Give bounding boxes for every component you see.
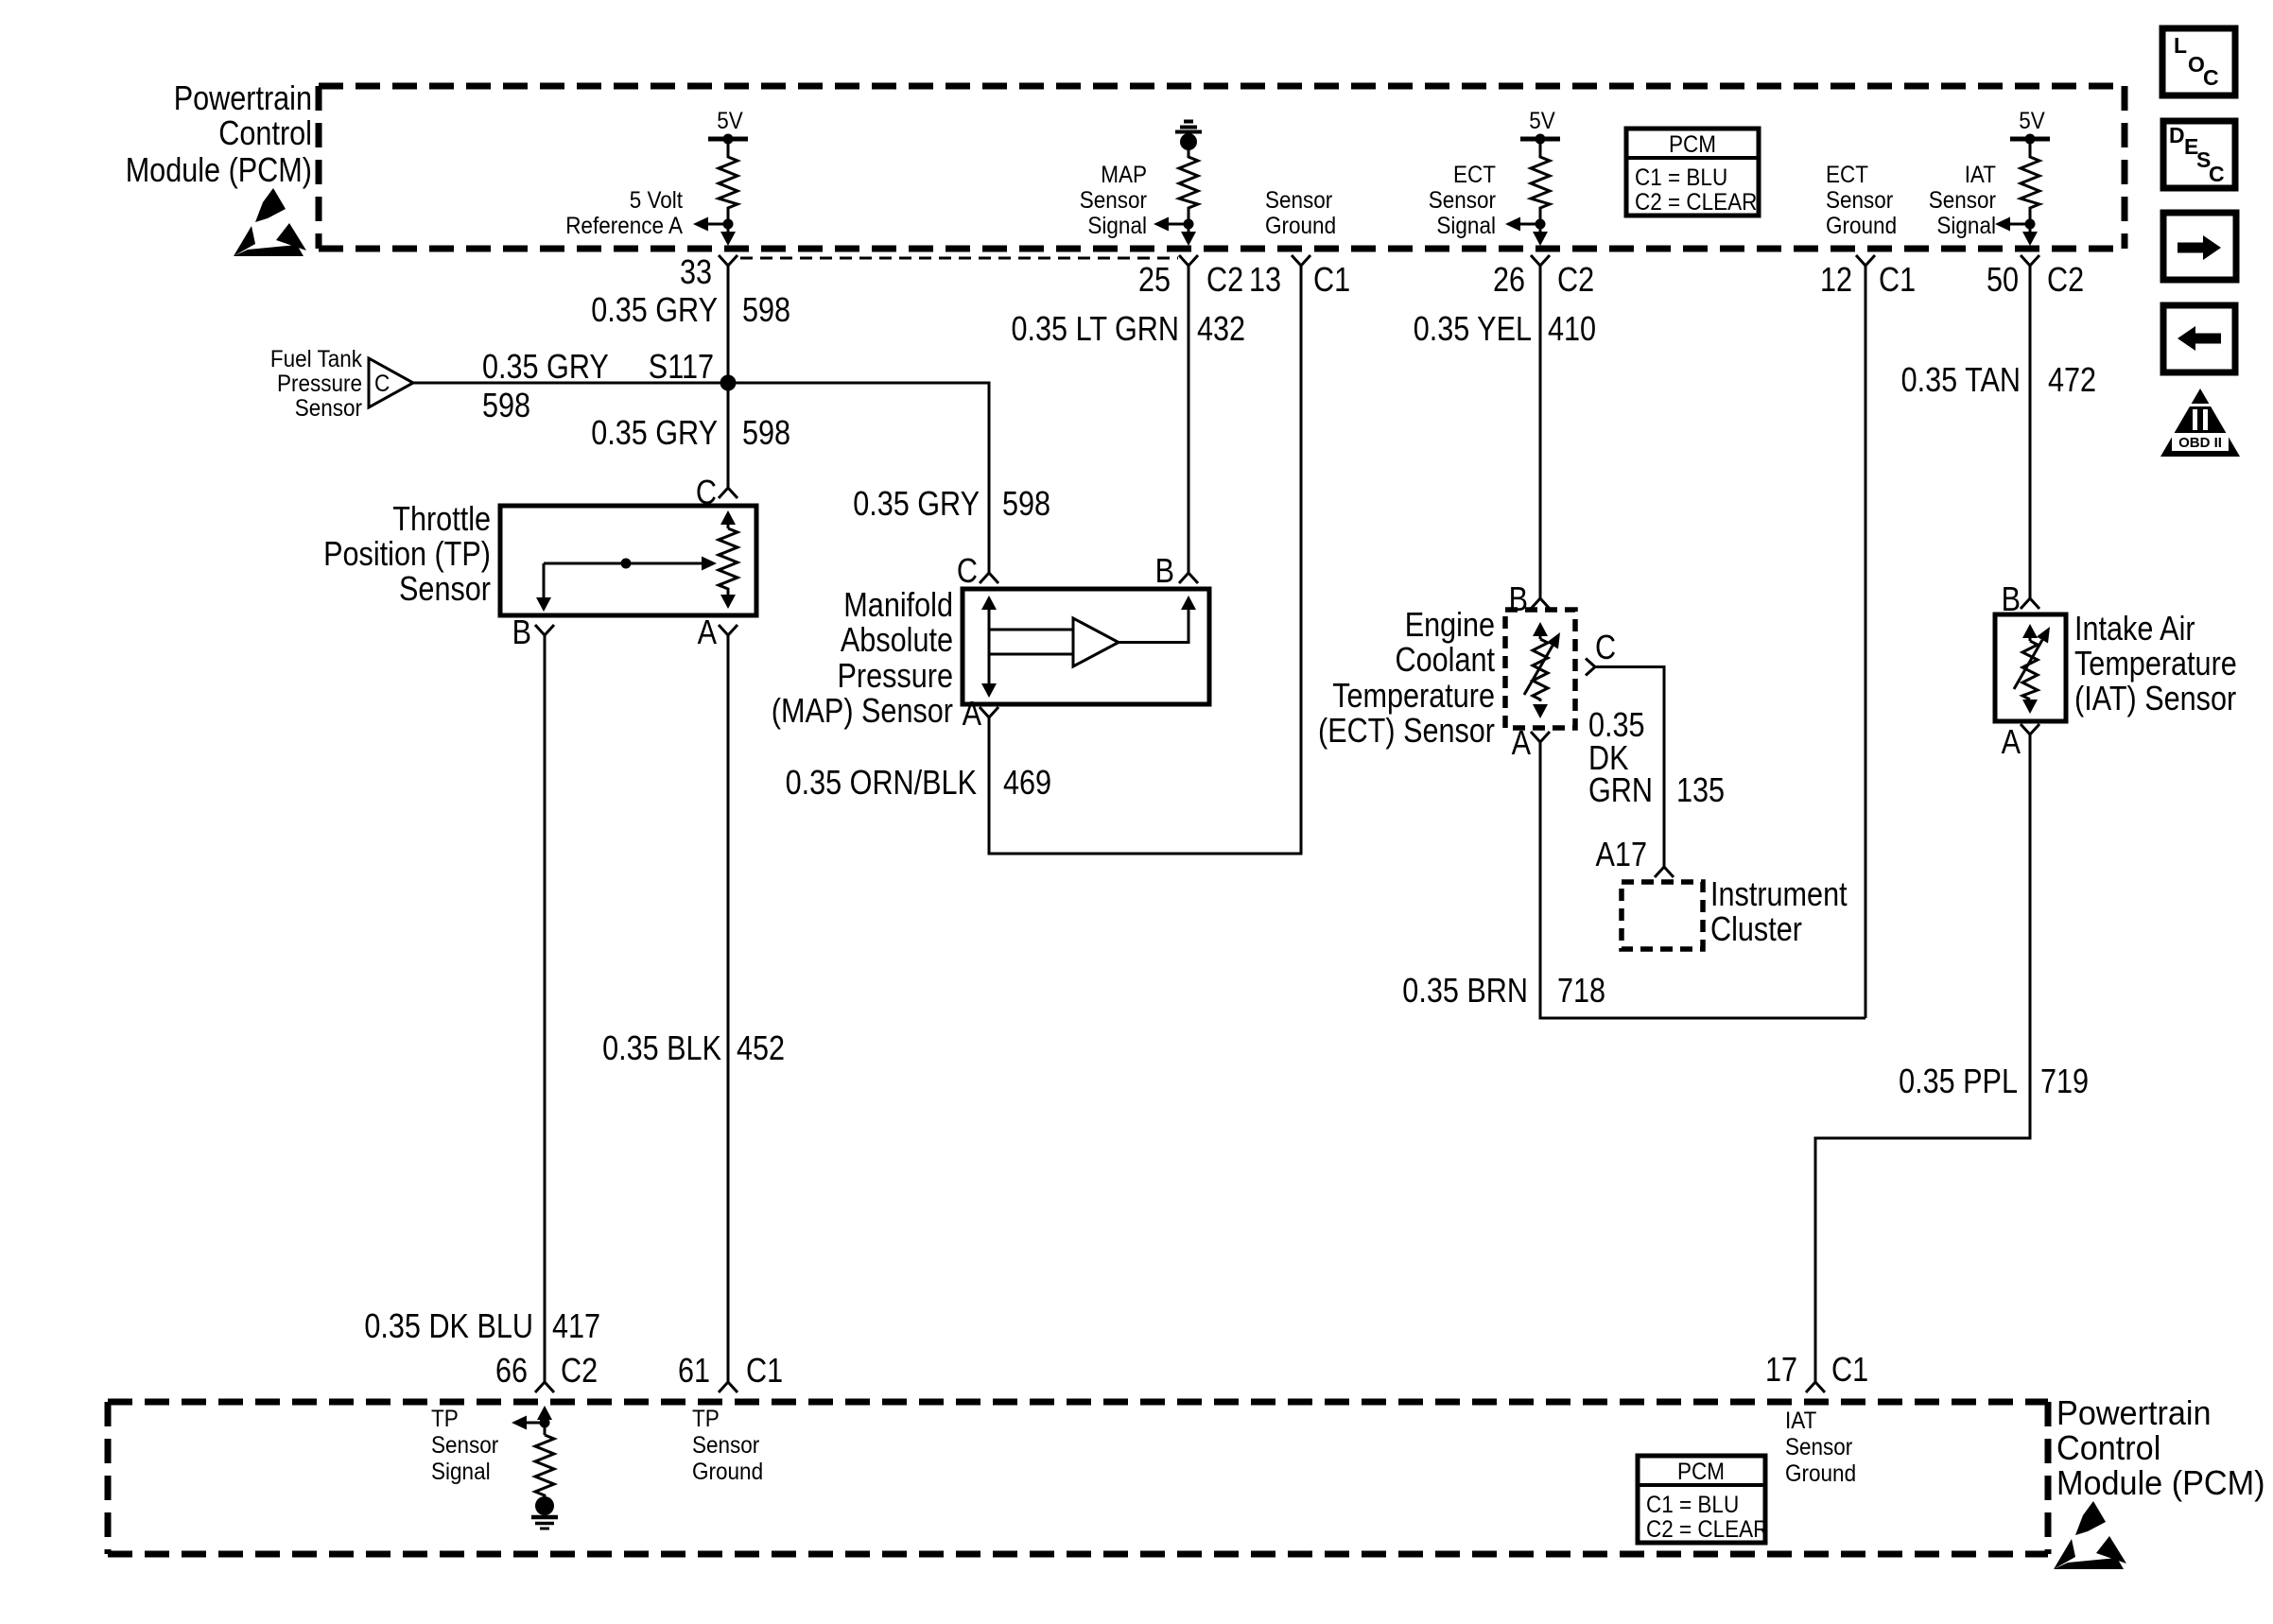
svg-text:33: 33 — [680, 252, 712, 291]
svg-text:5 Volt: 5 Volt — [630, 187, 683, 214]
svg-text:0.35 GRY: 0.35 GRY — [591, 290, 718, 329]
svg-text:C1 = BLU: C1 = BLU — [1635, 164, 1727, 191]
svg-text:Engine: Engine — [1405, 605, 1495, 644]
wire 432 LT GRN: pin 25 down to MAP B — [1188, 266, 1190, 573]
svg-text:Pressure: Pressure — [838, 656, 954, 695]
svg-text:0.35 BLK: 0.35 BLK — [602, 1028, 721, 1067]
svg-text:Sensor: Sensor — [295, 395, 362, 422]
potentiometer resistor (TP) — [719, 510, 737, 609]
svg-text:Sensor: Sensor — [1429, 187, 1496, 214]
resistor (IAT signal pull-up) — [2021, 153, 2039, 212]
svg-text:12: 12 — [1820, 260, 1852, 299]
svg-text:Signal: Signal — [1436, 213, 1496, 239]
svg-text:417: 417 — [552, 1306, 600, 1345]
pin 13 C1 — [1292, 255, 1310, 266]
svg-text:Cluster: Cluster — [1710, 909, 1802, 948]
svg-text:25: 25 — [1138, 260, 1171, 299]
svg-text:Powertrain: Powertrain — [174, 78, 312, 117]
signal arrow: ECT Sensor Signal — [1429, 162, 1540, 239]
left-arrow icon box — [2163, 305, 2235, 372]
signal arrow: MAP Sensor Signal — [1080, 162, 1189, 239]
svg-text:472: 472 — [2048, 360, 2096, 399]
wire 598 GRY: S117 right and down to MAP C — [728, 383, 989, 573]
ESD sensitive device symbol (top-left) — [234, 188, 306, 256]
svg-text:135: 135 — [1676, 770, 1725, 809]
svg-text:C2: C2 — [1206, 260, 1243, 299]
connector face line (thin dashed, C2 connector) — [740, 257, 1178, 260]
svg-text:0.35 BRN: 0.35 BRN — [1402, 971, 1528, 1010]
PCM connector legend box (top) — [1626, 129, 1759, 216]
Instrument Cluster box (dashed) — [1622, 882, 1703, 949]
op-amp (MAP transducer) — [1073, 618, 1119, 666]
svg-text:Sensor: Sensor — [1929, 187, 1996, 214]
5V supply (5 Volt Reference A) — [708, 108, 748, 153]
svg-text:Module (PCM): Module (PCM) — [126, 150, 312, 189]
svg-text:ECT: ECT — [1826, 162, 1868, 188]
wire 452 BLK: TP A down to pin 61 — [727, 635, 730, 1382]
svg-text:Sensor: Sensor — [1826, 187, 1893, 214]
svg-text:A17: A17 — [1596, 835, 1648, 873]
junction — [1536, 219, 1546, 230]
svg-text:C1 = BLU: C1 = BLU — [1646, 1492, 1739, 1518]
svg-text:L: L — [2174, 33, 2187, 58]
resistor (TP signal load) — [535, 1435, 554, 1497]
svg-text:Signal: Signal — [1936, 213, 1996, 239]
svg-text:0.35 GRY: 0.35 GRY — [853, 484, 980, 523]
svg-text:26: 26 — [1493, 260, 1525, 299]
svg-text:Signal: Signal — [1087, 213, 1147, 239]
svg-text:(IAT) Sensor: (IAT) Sensor — [2074, 679, 2236, 717]
pin 12 C1 — [1856, 255, 1875, 266]
svg-text:Sensor: Sensor — [1265, 187, 1332, 214]
thermistor (IAT) — [2014, 624, 2050, 714]
svg-text:IAT: IAT — [1785, 1408, 1816, 1434]
svg-text:Coolant: Coolant — [1396, 640, 1496, 679]
wire 472 TAN: pin 50 down to IAT B — [2029, 266, 2032, 598]
svg-text:Control: Control — [218, 113, 312, 152]
svg-text:452: 452 — [737, 1028, 785, 1067]
wire 417 DK BLU: TP B down to pin 66 — [544, 635, 547, 1382]
svg-text:GRN: GRN — [1588, 770, 1653, 809]
MAP sensor signal pull-up network — [1175, 122, 1202, 154]
junction — [2025, 219, 2036, 230]
svg-text:Throttle: Throttle — [392, 499, 491, 538]
svg-text:Temperature: Temperature — [1332, 676, 1495, 715]
svg-text:OBD II: OBD II — [2178, 435, 2222, 451]
svg-text:13: 13 — [1249, 260, 1281, 299]
wire 135 DK GRN: ECT C right and down to instrument cluster A17 — [1595, 667, 1664, 868]
svg-text:Pressure: Pressure — [277, 371, 362, 397]
MAP internal supply line with arrows — [981, 596, 1073, 698]
wire 719 PPL: IAT A down, left, down to pin 17 — [1815, 734, 2030, 1382]
PCM connector legend box (bottom) — [1638, 1456, 1768, 1543]
svg-text:598: 598 — [482, 386, 530, 424]
svg-text:C1: C1 — [1831, 1350, 1868, 1389]
svg-text:C1: C1 — [1313, 260, 1350, 299]
svg-text:0.35 ORN/BLK: 0.35 ORN/BLK — [786, 763, 977, 802]
svg-text:0.35 TAN: 0.35 TAN — [1901, 360, 2021, 399]
svg-text:Control: Control — [2056, 1428, 2160, 1467]
svg-text:Ground: Ground — [1265, 213, 1336, 239]
svg-text:A: A — [963, 694, 981, 733]
svg-text:C1: C1 — [746, 1351, 783, 1390]
svg-text:D: D — [2169, 123, 2185, 147]
svg-text:C2 = CLEAR: C2 = CLEAR — [1646, 1516, 1768, 1543]
potentiometer wiper (TP) — [536, 557, 717, 613]
svg-text:0.35 GRY: 0.35 GRY — [482, 347, 609, 386]
svg-text:A: A — [2002, 722, 2021, 761]
svg-text:61: 61 — [678, 1351, 710, 1390]
svg-text:Reference A: Reference A — [565, 213, 683, 239]
svg-text:Module (PCM): Module (PCM) — [2056, 1463, 2265, 1502]
svg-text:Instrument: Instrument — [1710, 874, 1848, 913]
svg-text:PCM: PCM — [1669, 131, 1716, 158]
pin 33 — [719, 255, 737, 266]
svg-text:17: 17 — [1765, 1350, 1797, 1389]
svg-text:5V: 5V — [717, 108, 743, 134]
svg-text:410: 410 — [1548, 309, 1596, 348]
svg-text:5V: 5V — [2019, 108, 2045, 134]
PCM module box (bottom, dashed) — [108, 1402, 2048, 1554]
svg-text:66: 66 — [495, 1351, 528, 1390]
wire: ECT sensor ground pin 12 down — [1865, 266, 1867, 1018]
pin 50 C2 — [2021, 255, 2039, 266]
svg-text:TP: TP — [431, 1406, 459, 1432]
svg-text:C2: C2 — [1557, 260, 1594, 299]
MAP sensor box — [963, 589, 1209, 704]
thermistor (ECT) — [1524, 622, 1560, 718]
svg-text:Ground: Ground — [1785, 1460, 1856, 1487]
svg-text:B: B — [1509, 579, 1528, 618]
svg-text:Intake Air: Intake Air — [2074, 609, 2195, 648]
svg-text:0.35 PPL: 0.35 PPL — [1899, 1062, 2018, 1100]
svg-text:C2: C2 — [561, 1351, 598, 1390]
wire 598 GRY: pin 33 down to TP sensor C — [727, 266, 730, 488]
svg-text:S117: S117 — [649, 347, 714, 386]
pin 26 C2 — [1531, 255, 1550, 266]
signal arrow: IAT Sensor Signal — [1929, 162, 2030, 239]
svg-text:(ECT) Sensor: (ECT) Sensor — [1318, 711, 1495, 750]
resistor (5V pull-up, 5 Volt Reference A) — [719, 153, 737, 212]
svg-text:C: C — [957, 551, 978, 590]
PCM module box (top, dashed) — [319, 86, 2125, 249]
svg-text:0.35 LT GRN: 0.35 LT GRN — [1012, 309, 1180, 348]
svg-text:Position (TP): Position (TP) — [323, 534, 491, 573]
svg-text:0.35 DK BLU: 0.35 DK BLU — [364, 1306, 533, 1345]
LOC icon box — [2162, 28, 2235, 95]
svg-text:ECT: ECT — [1453, 162, 1496, 188]
svg-text:432: 432 — [1197, 309, 1245, 348]
svg-text:598: 598 — [742, 290, 790, 329]
5V supply (ECT) — [1520, 108, 1560, 153]
svg-text:MAP: MAP — [1101, 162, 1147, 188]
svg-text:Powertrain: Powertrain — [2056, 1393, 2212, 1432]
svg-text:Absolute: Absolute — [841, 620, 953, 659]
svg-text:(MAP) Sensor: (MAP) Sensor — [772, 691, 953, 730]
svg-text:5V: 5V — [1529, 108, 1555, 134]
svg-text:Sensor: Sensor — [431, 1432, 498, 1459]
svg-text:469: 469 — [1003, 763, 1051, 802]
svg-text:C1: C1 — [1879, 260, 1916, 299]
svg-text:IAT: IAT — [1965, 162, 1996, 188]
svg-text:Sensor: Sensor — [1080, 187, 1147, 214]
svg-text:C2: C2 — [2047, 260, 2084, 299]
resistor (ECT signal pull-up) — [1531, 153, 1550, 212]
svg-text:0.35 YEL: 0.35 YEL — [1414, 309, 1532, 348]
connector triangle C (Fuel Tank Pressure Sensor) — [369, 358, 413, 407]
svg-text:C2 = CLEAR: C2 = CLEAR — [1635, 189, 1757, 216]
resistor (MAP signal pull-up) — [1179, 153, 1198, 212]
wire 469 ORN/BLK: MAP A down, right, up to pin 13 — [989, 266, 1301, 854]
svg-text:598: 598 — [742, 413, 790, 452]
wire 410 YEL: pin 26 down to ECT B — [1539, 266, 1542, 598]
node label: IAT Sensor Signal + 5V supply (IAT) — [2010, 108, 2050, 153]
svg-text:Signal: Signal — [431, 1459, 491, 1485]
svg-text:598: 598 — [1002, 484, 1050, 523]
svg-text:719: 719 — [2040, 1062, 2089, 1100]
junction — [1184, 219, 1194, 230]
svg-text:TP: TP — [692, 1406, 720, 1432]
svg-text:Ground: Ground — [1826, 213, 1897, 239]
MAP output line to B — [1119, 596, 1196, 643]
IAT sensor box — [1995, 614, 2066, 721]
wire with down arrow to PCM boundary — [727, 224, 730, 236]
wire: fuel tank pressure sensor to S117 — [413, 382, 989, 385]
TP sensor box — [500, 506, 756, 615]
svg-text:C: C — [1595, 628, 1616, 666]
junction — [723, 219, 734, 230]
wire 718 BRN: ECT A down and right to ECT ground wire — [1540, 742, 1865, 1018]
ESD sensitive device symbol (bottom-right) — [2054, 1501, 2126, 1569]
wire — [727, 212, 730, 224]
svg-text:Sensor: Sensor — [692, 1432, 759, 1459]
svg-text:B: B — [512, 613, 531, 651]
svg-text:Fuel Tank: Fuel Tank — [270, 346, 363, 372]
ground (TP signal load) — [531, 1496, 558, 1529]
ECT sensor box (dashed) — [1505, 610, 1575, 728]
signal arrow: 5 Volt Reference A — [565, 187, 728, 239]
svg-text:C: C — [374, 371, 390, 397]
svg-text:Sensor: Sensor — [1785, 1434, 1852, 1460]
svg-text:PCM: PCM — [1677, 1459, 1725, 1485]
right-arrow icon box — [2163, 213, 2236, 280]
pin 25 C2 — [1179, 255, 1198, 266]
svg-text:Manifold: Manifold — [843, 585, 953, 624]
svg-text:B: B — [1155, 551, 1174, 590]
svg-text:0.35 GRY: 0.35 GRY — [591, 413, 718, 452]
svg-text:A: A — [698, 613, 717, 651]
svg-text:Temperature: Temperature — [2074, 644, 2237, 682]
svg-text:C: C — [2203, 65, 2219, 90]
svg-text:Ground: Ground — [692, 1459, 763, 1485]
svg-text:Sensor: Sensor — [399, 569, 491, 608]
OBD II icon triangle — [2160, 389, 2240, 457]
DESC icon box — [2163, 121, 2235, 188]
svg-text:50: 50 — [1987, 260, 2019, 299]
svg-text:718: 718 — [1557, 971, 1605, 1010]
svg-text:C: C — [2209, 162, 2225, 186]
svg-text:A: A — [1512, 723, 1531, 762]
TP sensor signal input network (inside PCM) — [512, 1406, 552, 1435]
